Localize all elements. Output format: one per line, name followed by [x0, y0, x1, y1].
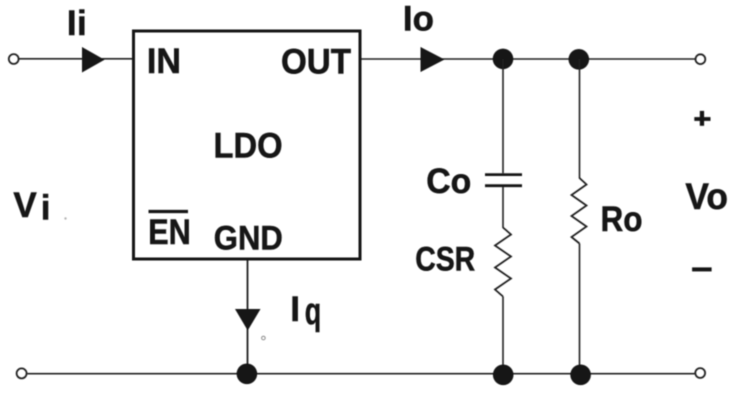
node: OUT junction to Co branch — [493, 49, 514, 70]
svg-text:i: i — [77, 4, 87, 43]
svg-text:GND: GND — [214, 219, 283, 257]
wire: OUT pin to output terminal — [362, 58, 696, 60]
stray mark (tiny circle near Iq arrow) — [262, 336, 266, 340]
label - (output polarity) — [692, 267, 712, 271]
wire: Co to CSR — [502, 187, 504, 228]
bottom rail wire — [28, 373, 695, 375]
stray mark (faint speck near Vi) — [64, 217, 66, 219]
EN overline — [149, 210, 189, 213]
output terminal (top-right open circle) — [696, 54, 706, 64]
resistor CSR (zigzag) — [495, 228, 511, 297]
svg-text:I: I — [290, 290, 300, 329]
svg-text:Vo: Vo — [685, 175, 728, 217]
wire: GND pin down to bottom rail — [247, 261, 249, 375]
wire: Ro to bottom rail — [579, 244, 581, 375]
svg-text:V: V — [13, 186, 37, 225]
capacitor Co (bottom plate) — [485, 184, 522, 187]
current arrow Ii — [82, 47, 105, 73]
quiescent current arrow Iq — [235, 309, 261, 331]
svg-text:EN: EN — [148, 213, 191, 252]
svg-text:OUT: OUT — [281, 42, 351, 81]
node: Ro junction on bottom rail — [570, 365, 591, 386]
resistor Ro (zigzag) — [572, 178, 587, 244]
input terminal (top-left open circle) — [9, 54, 19, 64]
svg-text:IN: IN — [147, 42, 181, 81]
svg-text:CSR: CSR — [415, 240, 475, 278]
node: CSR junction on bottom rail — [493, 365, 514, 386]
LDO regulator block U1 — [134, 31, 361, 259]
node: OUT junction to Ro branch — [569, 49, 590, 70]
capacitor Co (top plate) — [485, 173, 522, 176]
svg-text:I: I — [67, 4, 77, 43]
ground terminal (bottom-left open circle) — [17, 368, 27, 378]
current arrow Io — [421, 47, 445, 72]
wire: top node down to Co — [502, 59, 504, 173]
svg-text:Io: Io — [403, 0, 434, 38]
wire: top node down to Ro — [579, 59, 581, 179]
svg-text:q: q — [305, 291, 322, 333]
svg-text:Ro: Ro — [601, 200, 643, 239]
ground terminal (bottom-right open circle) — [695, 368, 705, 378]
wire: CSR to bottom rail — [502, 297, 504, 375]
svg-text:i: i — [41, 189, 51, 228]
node: GND junction on bottom rail — [237, 364, 258, 385]
svg-text:Co: Co — [426, 162, 471, 201]
label + (output polarity) — [694, 117, 710, 121]
svg-text:LDO: LDO — [214, 126, 283, 165]
wire: input terminal to IN pin — [19, 58, 133, 60]
